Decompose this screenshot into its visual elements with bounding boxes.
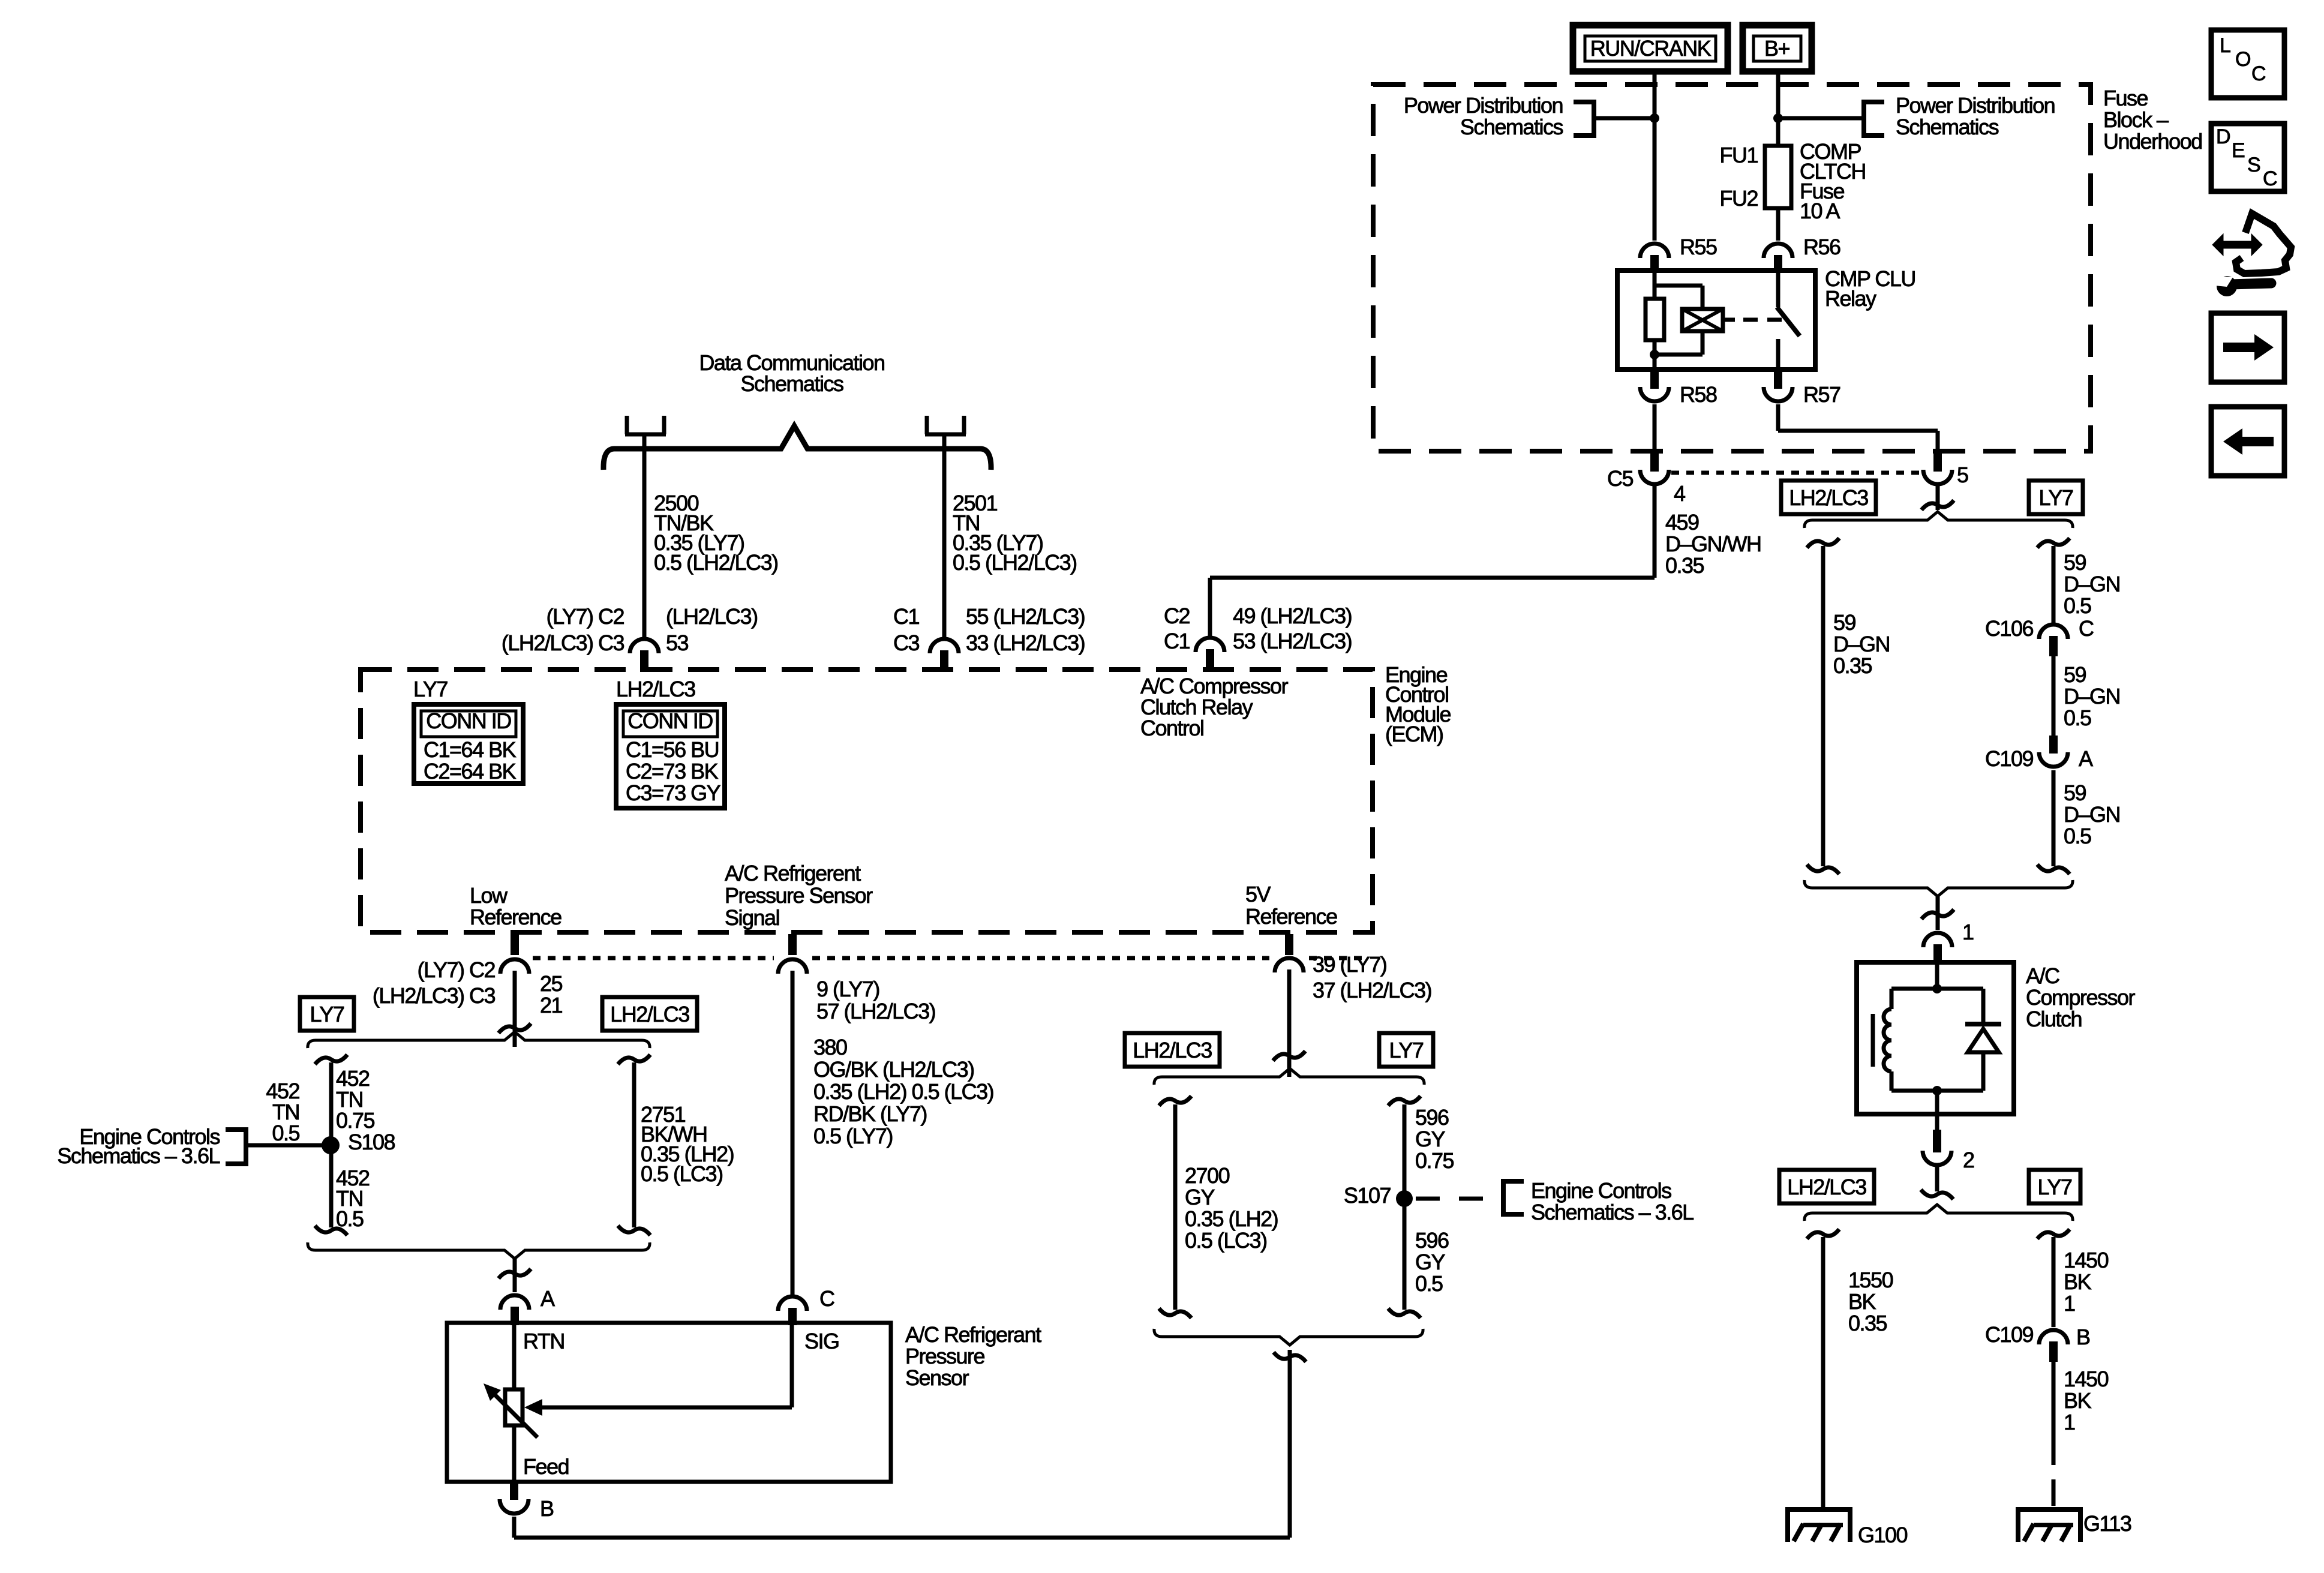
svg-text:C2: C2	[1164, 604, 1190, 628]
value label 596 GY 0.75	[1415, 1105, 1454, 1173]
value label 452 TN 0.5 (left of S108)	[266, 1079, 299, 1145]
svg-text:Pressure Sensor: Pressure Sensor	[725, 883, 873, 908]
connector sensor pin C	[778, 1286, 834, 1325]
svg-text:459: 459	[1665, 510, 1699, 535]
svg-text:Reference: Reference	[1245, 904, 1337, 929]
value label 59 D-GN 0.5 lower	[2064, 781, 2120, 848]
svg-text:R58: R58	[1680, 382, 1717, 407]
svg-text:Schematics – 3.6L: Schematics – 3.6L	[1531, 1200, 1694, 1224]
svg-text:57 (LH2/LC3): 57 (LH2/LC3)	[816, 999, 935, 1023]
harness tag LH2/LC3 (ECM conn id)	[616, 677, 695, 701]
svg-text:53 (LH2/LC3): 53 (LH2/LC3)	[1233, 629, 1352, 653]
value label 2700 GY 0.35 (LH2) 0.5 (LC3)	[1185, 1163, 1278, 1253]
wire resistor to junction	[1653, 340, 1657, 355]
pin R55	[1640, 235, 1717, 271]
svg-text:D–GN: D–GN	[1833, 632, 1890, 656]
svg-text:L: L	[2220, 34, 2230, 57]
svg-text:Sensor: Sensor	[905, 1365, 969, 1390]
value label 2501 TN 0.35 (LY7) 0.5 (LH2/LC3)	[953, 491, 1077, 575]
harness tag LH2/LC3 (low ref split)	[602, 997, 697, 1031]
wire RTN inside sensor	[512, 1325, 517, 1389]
wire relay inner loop	[1655, 286, 1703, 355]
wire pin 2 to ground split	[1921, 1166, 1953, 1199]
svg-text:C1=56 BU: C1=56 BU	[626, 737, 719, 762]
svg-text:59: 59	[1833, 610, 1856, 635]
brace low ref split bottom	[308, 1242, 650, 1259]
svg-text:LY7: LY7	[2038, 1175, 2072, 1199]
connector C5 pin 4	[1607, 404, 1685, 506]
table CONN ID LH2/LC3	[616, 704, 725, 808]
svg-text:0.5 (LH2/LC3): 0.5 (LH2/LC3)	[953, 550, 1077, 575]
wire split to sensor pin A	[499, 1259, 531, 1292]
wire clutch to pin 2	[1935, 1091, 1939, 1114]
svg-text:2: 2	[1963, 1148, 1974, 1172]
svg-text:Engine Controls: Engine Controls	[1531, 1178, 1671, 1203]
svg-text:CONN ID: CONN ID	[426, 709, 511, 733]
connector C109 pin B	[1985, 1322, 2090, 1362]
svg-text:CONN ID: CONN ID	[627, 709, 713, 733]
svg-text:9 (LY7): 9 (LY7)	[816, 977, 879, 1001]
icon vehicle with wrench	[2212, 214, 2291, 296]
svg-text:B: B	[540, 1496, 554, 1521]
svg-text:OG/BK (LH2/LC3): OG/BK (LH2/LC3)	[813, 1057, 974, 1082]
svg-text:GY: GY	[1415, 1250, 1446, 1274]
brace 5V split top	[1154, 1068, 1424, 1085]
svg-text:D–GN: D–GN	[2064, 572, 2120, 596]
svg-text:C1=64 BK: C1=64 BK	[424, 737, 517, 762]
wire R57 to connector 5	[1778, 404, 1938, 452]
harness tag LY7 (ECM conn id)	[413, 677, 448, 701]
svg-text:C5: C5	[1607, 466, 1633, 491]
svg-text:GY: GY	[1185, 1185, 1215, 1209]
wire SIG inside sensor with arrow	[524, 1325, 792, 1416]
value label 1550 BK 0.35	[1848, 1268, 1893, 1335]
pin R57	[1764, 370, 1840, 407]
svg-text:1450: 1450	[2064, 1367, 2109, 1391]
wire 1550 BK 0.35 to G100	[1807, 1229, 1839, 1507]
harness tag LH2/LC3 (D-GN split)	[1781, 481, 1876, 514]
connector ECM C2/C1 pins 49/53 (A/C relay control)	[1164, 604, 1352, 672]
value label 2751 BK/WH 0.35 (LH2) 0.5 (LC3)	[641, 1102, 734, 1186]
off-page ref Power Distribution Schematics (left)	[1404, 93, 1655, 139]
svg-text:BK: BK	[2064, 1269, 2092, 1294]
harness connector dotted line (ECM bottom)	[533, 956, 1363, 960]
A/C Compressor Clutch box	[1857, 962, 2136, 1114]
relay CMP CLU Relay	[1617, 266, 1915, 370]
svg-text:2700: 2700	[1185, 1163, 1230, 1188]
connector pin 1 (A/C compressor clutch)	[1923, 920, 1974, 965]
connector sensor pin B	[500, 1482, 554, 1521]
svg-text:C: C	[2251, 62, 2266, 85]
svg-text:Low: Low	[470, 883, 508, 908]
svg-text:Schematics – 3.6L: Schematics – 3.6L	[57, 1143, 220, 1168]
label 5V Reference	[1245, 882, 1337, 929]
svg-text:33 (LH2/LC3): 33 (LH2/LC3)	[966, 631, 1085, 655]
wire 2751 BK/WH branch (LH2/LC3)	[618, 1055, 650, 1235]
svg-text:S: S	[2247, 154, 2260, 176]
svg-text:D–GN/WH: D–GN/WH	[1665, 532, 1761, 556]
icon LOC box	[2211, 30, 2284, 98]
svg-text:LH2/LC3: LH2/LC3	[616, 677, 695, 701]
harness tag LH2/LC3 (ground split)	[1779, 1170, 1874, 1203]
label Feed	[523, 1454, 569, 1479]
svg-text:C: C	[2079, 616, 2094, 641]
svg-text:0.5: 0.5	[2064, 824, 2091, 848]
svg-text:R56: R56	[1803, 235, 1840, 259]
wire below connector 5	[1921, 486, 1954, 510]
power node B+	[1743, 25, 1812, 71]
svg-text:LH2/LC3: LH2/LC3	[1133, 1038, 1212, 1062]
wire fuse to R56	[1776, 208, 1780, 241]
svg-text:0.5 (LY7): 0.5 (LY7)	[813, 1124, 893, 1148]
svg-text:(LH2/LC3): (LH2/LC3)	[666, 604, 758, 629]
svg-text:D–GN: D–GN	[2064, 684, 2120, 709]
off-page ref Power Distribution Schematics (right)	[1778, 93, 2055, 139]
svg-text:1: 1	[2064, 1291, 2075, 1316]
svg-text:R55: R55	[1680, 235, 1717, 259]
svg-text:C2=64 BK: C2=64 BK	[424, 759, 517, 784]
svg-text:59: 59	[2064, 550, 2086, 575]
connector pin 2	[1923, 1114, 1974, 1172]
harness connector dotted line (fuse block)	[1671, 471, 1921, 475]
svg-text:1550: 1550	[1848, 1268, 1893, 1292]
svg-text:25: 25	[540, 971, 563, 996]
svg-text:RD/BK (LY7): RD/BK (LY7)	[813, 1101, 927, 1126]
svg-text:A: A	[2079, 746, 2093, 771]
svg-text:0.5: 0.5	[272, 1121, 299, 1145]
off-page destination symbol (right, wire 2501)	[925, 416, 966, 434]
svg-text:FU1: FU1	[1719, 143, 1758, 167]
icon DESC box	[2211, 124, 2284, 191]
svg-text:C109: C109	[1985, 1322, 2034, 1347]
svg-text:55 (LH2/LC3): 55 (LH2/LC3)	[966, 604, 1085, 629]
svg-text:Signal: Signal	[725, 905, 779, 930]
label Engine Control Module (ECM)	[1385, 662, 1451, 746]
off-page destination symbol (left, wire 2500)	[625, 416, 666, 434]
svg-text:59: 59	[2064, 662, 2086, 687]
svg-text:0.5: 0.5	[1415, 1271, 1443, 1296]
svg-text:Fuse: Fuse	[2103, 86, 2148, 110]
variable resistor (sensor element)	[484, 1383, 538, 1437]
svg-text:(LY7) C2: (LY7) C2	[418, 957, 496, 982]
svg-text:S107: S107	[1344, 1183, 1391, 1208]
label RTN	[523, 1329, 565, 1353]
svg-text:0.75: 0.75	[336, 1108, 375, 1133]
svg-text:C: C	[819, 1286, 834, 1311]
label Low Reference	[470, 883, 562, 929]
harness tag LY7 (D-GN split)	[2029, 481, 2083, 514]
svg-text:4: 4	[1674, 481, 1685, 506]
svg-text:0.5 (LH2/LC3): 0.5 (LH2/LC3)	[654, 550, 778, 575]
connector ECM low reference pins 25/21	[373, 934, 563, 1017]
inductor clutch coil	[1873, 989, 1891, 1091]
svg-text:39 (LY7): 39 (LY7)	[1313, 952, 1386, 977]
node relay coil junction	[1650, 350, 1659, 359]
label SIG	[804, 1329, 839, 1353]
wire Feed inside sensor	[512, 1425, 517, 1482]
wire 596 GY branch (LY7)	[1388, 1096, 1421, 1318]
svg-text:Reference: Reference	[470, 905, 562, 929]
harness tag LY7 (low ref split)	[300, 997, 354, 1031]
label Data Communication Schematics	[699, 350, 884, 396]
brace D-GN split top	[1804, 512, 2073, 528]
wire 59 D-GN 0.35 (LH2/LC3 branch)	[1807, 538, 1839, 874]
wire 5V reference to split	[1273, 969, 1305, 1077]
icon arrow back box	[2211, 407, 2284, 476]
connector sensor pin A	[500, 1286, 555, 1325]
label Fuse Block - Underhood	[2103, 86, 2202, 154]
svg-text:RTN: RTN	[523, 1329, 565, 1353]
wire clutch top rail	[1891, 987, 1983, 991]
svg-text:B: B	[2076, 1325, 2090, 1349]
fuse FU1/FU2 COMP CLTCH Fuse 10 A	[1719, 139, 1865, 223]
Engine Control Module dashed box	[361, 670, 1373, 932]
connector C106 pin C	[1985, 616, 2094, 656]
svg-text:C3: C3	[893, 631, 919, 655]
svg-text:21: 21	[540, 993, 563, 1017]
svg-text:LY7: LY7	[310, 1002, 344, 1026]
harness tag LY7 (5V split)	[1379, 1033, 1433, 1067]
svg-text:C3=73 GY: C3=73 GY	[626, 781, 721, 805]
svg-text:49 (LH2/LC3): 49 (LH2/LC3)	[1233, 604, 1352, 628]
svg-text:R57: R57	[1803, 382, 1840, 407]
value label 596 GY 0.5	[1415, 1228, 1449, 1296]
wire B+ down to fuse	[1776, 71, 1780, 146]
wire pin1 into clutch	[1935, 965, 1939, 989]
connector ECM 5V reference pins 39/37	[1275, 934, 1431, 1002]
svg-text:380: 380	[813, 1035, 847, 1059]
svg-text:Block –: Block –	[2103, 107, 2169, 132]
wire 2700 GY branch (LH2/LC3)	[1159, 1096, 1191, 1318]
wire 380 signal ECM to sensor	[791, 971, 795, 1295]
svg-text:Pressure: Pressure	[905, 1344, 985, 1368]
svg-text:Feed: Feed	[523, 1454, 569, 1479]
svg-text:C: C	[2263, 167, 2277, 190]
svg-text:S108: S108	[348, 1130, 395, 1154]
wire coil actuator link	[1723, 318, 1782, 322]
svg-text:1: 1	[2064, 1410, 2075, 1434]
svg-text:0.5: 0.5	[2064, 593, 2091, 618]
svg-text:LH2/LC3: LH2/LC3	[610, 1002, 689, 1026]
svg-text:Power Distribution: Power Distribution	[1896, 93, 2055, 118]
node junction on B+ feed	[1773, 113, 1783, 123]
wire 1450 BK 1 to G113 (part dashed)	[2052, 1362, 2056, 1507]
brace data communication	[603, 426, 991, 470]
svg-text:Underhood: Underhood	[2103, 129, 2202, 154]
brace D-GN split bottom	[1804, 880, 2073, 896]
brace low ref split top	[308, 1032, 650, 1048]
value label 1450 BK 1 upper	[2064, 1248, 2109, 1316]
value label 452 TN 0.5 (below S108)	[336, 1166, 370, 1231]
svg-text:G100: G100	[1858, 1523, 1908, 1547]
svg-text:GY: GY	[1415, 1127, 1446, 1151]
value label 59 D-GN 0.5 middle	[2064, 662, 2120, 730]
relay coil branch wire	[1653, 271, 1657, 299]
svg-text:0.75: 0.75	[1415, 1148, 1454, 1173]
wire low reference to split	[499, 971, 531, 1047]
svg-text:0.5 (LC3): 0.5 (LC3)	[1185, 1228, 1267, 1253]
svg-text:D: D	[2216, 125, 2230, 148]
value label 452 TN 0.75	[336, 1066, 375, 1133]
svg-text:Power Distribution: Power Distribution	[1404, 93, 1563, 118]
value label 59 D-GN 0.35	[1833, 610, 1890, 678]
connector 5	[1923, 454, 1968, 487]
svg-text:LY7: LY7	[1389, 1038, 1424, 1062]
svg-text:0.5: 0.5	[336, 1206, 364, 1231]
splice S108	[322, 1130, 395, 1154]
svg-text:Schematics: Schematics	[740, 371, 843, 396]
svg-text:(ECM): (ECM)	[1385, 722, 1443, 746]
brace 5V split bottom	[1154, 1329, 1423, 1345]
label A/C Compressor Clutch Relay Control	[1140, 674, 1289, 740]
diode clutch suppression	[1965, 989, 2001, 1091]
svg-text:C2=73 BK: C2=73 BK	[626, 759, 719, 784]
connector C109 pin A	[1985, 736, 2093, 771]
svg-text:A: A	[541, 1286, 555, 1311]
svg-text:LY7: LY7	[2039, 485, 2073, 510]
brace ground split	[1804, 1205, 2073, 1221]
svg-text:0.5: 0.5	[2064, 706, 2091, 730]
svg-text:LH2/LC3: LH2/LC3	[1789, 485, 1868, 510]
svg-text:C109: C109	[1985, 746, 2034, 771]
Fuse Block - Underhood dashed enclosure	[1373, 85, 2091, 451]
connector ECM pressure signal pins 9/57	[778, 934, 935, 1023]
svg-text:5V: 5V	[1245, 882, 1271, 906]
svg-text:10 A: 10 A	[1800, 199, 1840, 223]
wire brace to connector 1	[1921, 896, 1954, 930]
wire 452 TN branch (LY7)	[315, 1055, 347, 1235]
harness tag LH2/LC3 (5V split)	[1125, 1033, 1220, 1067]
svg-text:C1: C1	[1164, 629, 1190, 653]
value label 2500 TN/BK 0.35 (LY7) 0.5 (LH2/LC3)	[654, 491, 778, 575]
wire 59 D-GN 0.5 upper (LY7 branch)	[2037, 538, 2070, 623]
svg-text:596: 596	[1415, 1105, 1449, 1130]
svg-text:37 (LH2/LC3): 37 (LH2/LC3)	[1313, 978, 1431, 1002]
connector ECM C1/C3 pins 55/33	[893, 604, 1085, 672]
wire sensor B feed return	[514, 1350, 1306, 1538]
svg-text:Control: Control	[1140, 716, 1204, 740]
svg-text:LH2/LC3: LH2/LC3	[1787, 1175, 1866, 1199]
value label 59 D-GN 0.5 upper	[2064, 550, 2120, 618]
svg-text:BK: BK	[2064, 1388, 2092, 1413]
node junction on RUN/CRANK feed	[1650, 113, 1659, 123]
svg-text:596: 596	[1415, 1228, 1449, 1253]
svg-text:0.35 (LH2) 0.5 (LC3): 0.35 (LH2) 0.5 (LC3)	[813, 1079, 993, 1104]
wire junction to relay box bottom	[1653, 355, 1657, 370]
svg-text:SIG: SIG	[804, 1329, 839, 1353]
svg-text:D–GN: D–GN	[2064, 802, 2120, 827]
power node RUN/CRANK	[1573, 25, 1728, 71]
wire 459 D-GN/WH 0.35 from C5 to ECM	[1210, 486, 1655, 637]
svg-text:Schematics: Schematics	[1460, 115, 1563, 139]
label A/C Refrigerent Pressure Sensor Signal	[725, 861, 873, 930]
A/C Refrigerant Pressure Sensor box	[447, 1322, 1041, 1482]
svg-text:FU2: FU2	[1719, 186, 1758, 211]
svg-text:RUN/CRANK: RUN/CRANK	[1590, 36, 1712, 61]
svg-text:E: E	[2232, 139, 2245, 162]
svg-text:0.35: 0.35	[1833, 653, 1872, 678]
wire clutch bottom rail	[1891, 1089, 1983, 1093]
svg-text:B+: B+	[1764, 36, 1790, 61]
svg-text:BK: BK	[1848, 1289, 1876, 1314]
svg-text:0.35 (LH2): 0.35 (LH2)	[1185, 1206, 1278, 1231]
value label 459 D-GN/WH 0.35	[1665, 510, 1761, 578]
svg-text:(LH2/LC3) C3: (LH2/LC3) C3	[373, 983, 496, 1008]
svg-text:(LY7) C2: (LY7) C2	[547, 604, 624, 629]
svg-text:LY7: LY7	[413, 677, 448, 701]
wire 59 D-GN 0.5 middle	[2052, 656, 2056, 736]
svg-text:Relay: Relay	[1825, 286, 1876, 311]
wire 59 D-GN 0.5 lower	[2037, 770, 2070, 874]
value label 380 OG/BK RD/BK	[813, 1035, 993, 1148]
svg-text:Compressor: Compressor	[2026, 985, 2136, 1010]
solenoid coil element	[1682, 309, 1723, 331]
svg-text:Schematics: Schematics	[1896, 115, 1999, 139]
icon arrow forward box	[2211, 313, 2284, 382]
svg-text:53: 53	[666, 631, 689, 655]
splice S107	[1344, 1183, 1413, 1208]
harness tag LY7 (ground split)	[2029, 1170, 2080, 1203]
svg-text:C1: C1	[893, 604, 919, 629]
node clutch top junction	[1932, 984, 1942, 993]
off-page ref Engine Controls Schematics - 3.6L (S108)	[57, 1124, 324, 1168]
ground G100	[1785, 1507, 1908, 1547]
svg-text:C106: C106	[1985, 616, 2034, 641]
svg-text:A/C Refrigerant: A/C Refrigerant	[905, 1322, 1041, 1347]
svg-text:1450: 1450	[2064, 1248, 2109, 1272]
switch relay contact	[1777, 271, 1800, 370]
pin R56	[1764, 235, 1840, 271]
svg-text:0.35: 0.35	[1848, 1311, 1887, 1335]
connector ECM C2/C3 pin 53	[502, 604, 758, 672]
ground G113	[2016, 1507, 2131, 1542]
wire RUN/CRANK down to R55	[1653, 71, 1657, 241]
svg-text:0.35: 0.35	[1665, 553, 1704, 578]
svg-text:5: 5	[1957, 463, 1968, 487]
wire 2500 TN/BK	[642, 436, 647, 637]
table CONN ID LY7	[414, 704, 523, 784]
svg-text:A/C: A/C	[2026, 963, 2059, 988]
svg-text:G113: G113	[2083, 1511, 2131, 1536]
node clutch bottom junction	[1932, 1086, 1942, 1095]
pin R58	[1640, 370, 1717, 407]
svg-text:(LH2/LC3) C3: (LH2/LC3) C3	[502, 631, 624, 655]
value label 1450 BK 1 lower	[2064, 1367, 2109, 1434]
wire 1450 BK 1 upper	[2037, 1229, 2070, 1327]
svg-text:0.5 (LC3): 0.5 (LC3)	[641, 1161, 723, 1186]
svg-text:Clutch: Clutch	[2026, 1007, 2082, 1031]
svg-text:A/C Refrigerent: A/C Refrigerent	[725, 861, 861, 885]
svg-text:O: O	[2235, 48, 2250, 71]
off-page ref Engine Controls Schematics - 3.6L (S107)	[1416, 1178, 1694, 1224]
svg-text:59: 59	[2064, 781, 2086, 805]
wire 2501 TN	[942, 436, 947, 637]
resistor (relay coil suppression)	[1646, 299, 1664, 340]
svg-text:1: 1	[1962, 920, 1974, 944]
